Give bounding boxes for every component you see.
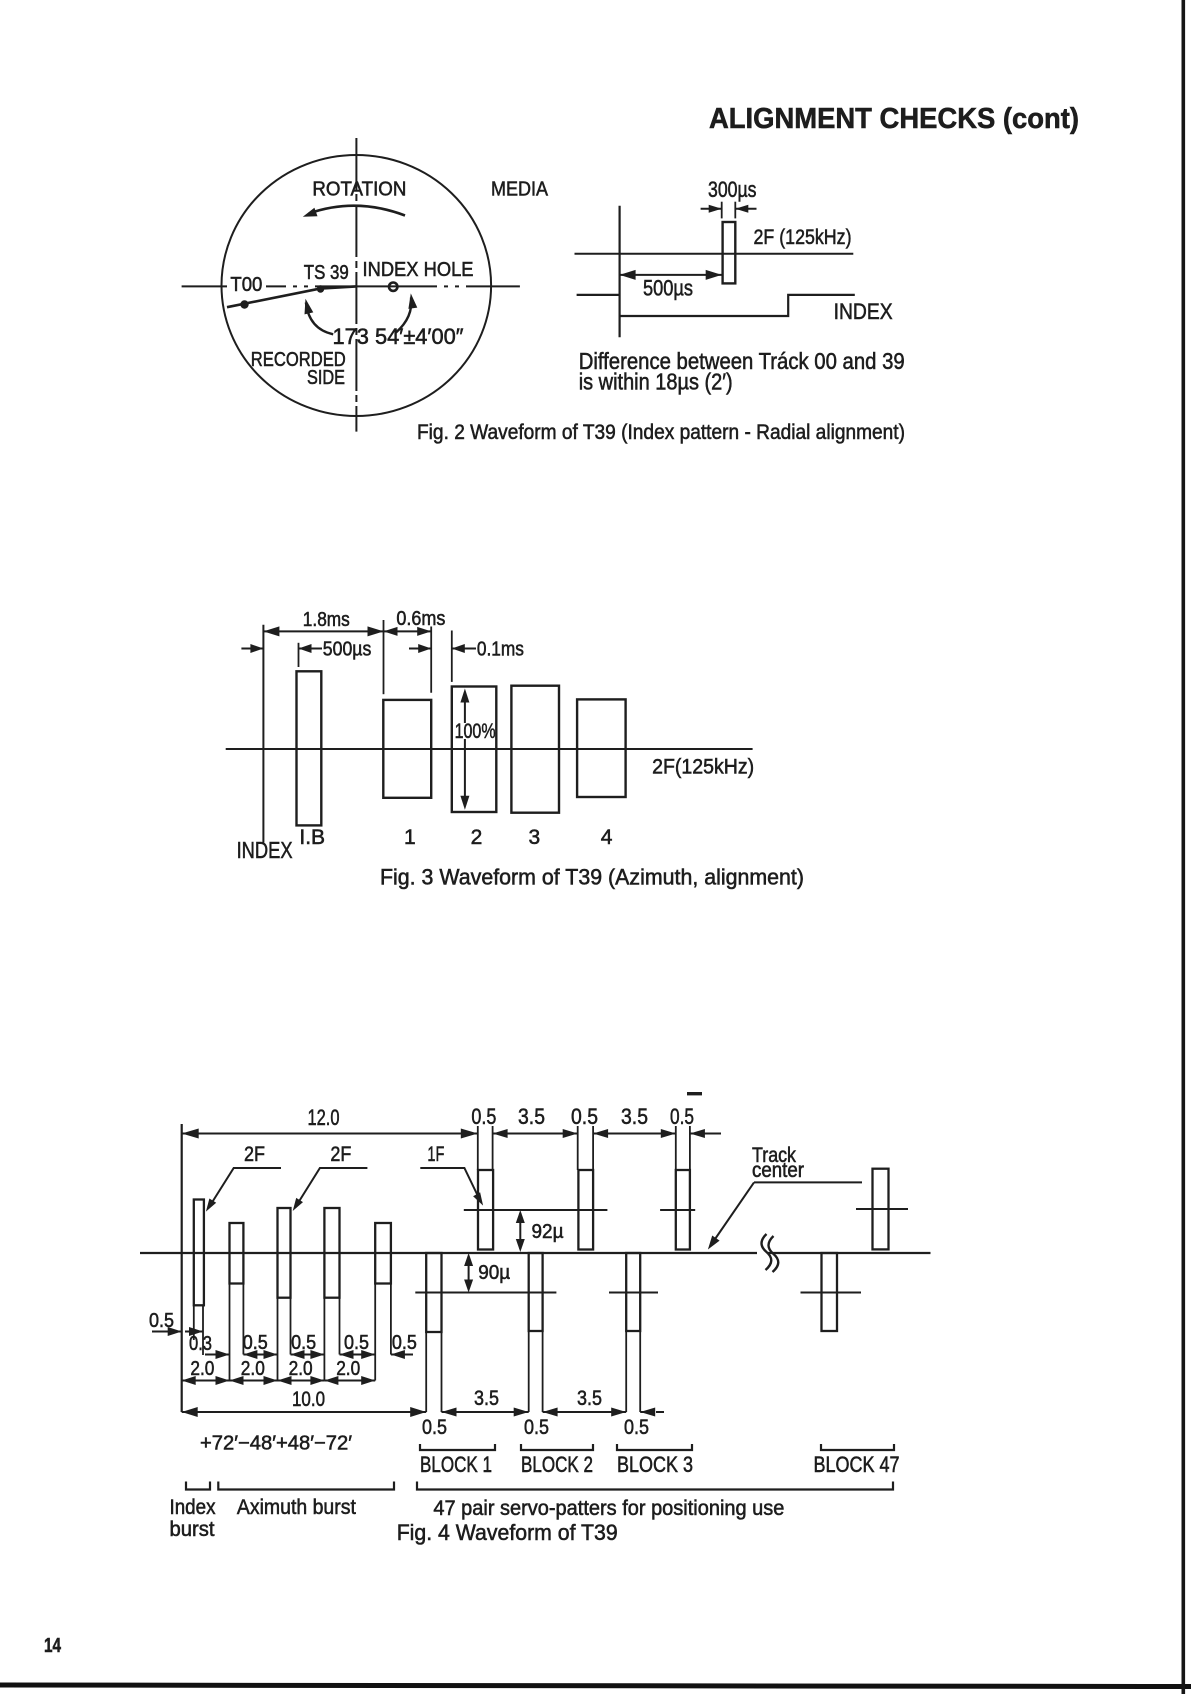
- Fig.4 track center baseline: [140, 1252, 757, 1254]
- svg-text:92µ: 92µ: [532, 1221, 564, 1243]
- Fig.3 pulse I.B: [297, 671, 322, 825]
- Fig.4 lower chain line block3: [609, 1292, 658, 1294]
- svg-text:2.0: 2.0: [289, 1358, 313, 1380]
- Fig.4 servo upper pulse block2: [578, 1170, 593, 1250]
- Fig.2 timing 2F baseline: [575, 253, 854, 255]
- svg-text:3.5: 3.5: [621, 1104, 648, 1129]
- svg-text:INDEX: INDEX: [237, 837, 293, 863]
- svg-text:BLOCK 3: BLOCK 3: [617, 1452, 693, 1477]
- svg-text:1.8ms: 1.8ms: [303, 609, 350, 631]
- svg-text:3.5: 3.5: [474, 1387, 499, 1410]
- svg-text:2.0: 2.0: [190, 1358, 214, 1380]
- Fig.4 upper chain line block47: [856, 1208, 908, 1210]
- Fig.2 track-39 slant line: [227, 286, 356, 307]
- svg-text:burst: burst: [170, 1518, 215, 1541]
- svg-text:0.5: 0.5: [524, 1416, 549, 1439]
- svg-text:Fig. 2 Waveform of T39 (Index: Fig. 2 Waveform of T39 (Index pattern - …: [417, 420, 905, 444]
- Fig.4 break squiggle: [762, 1234, 772, 1270]
- Fig.2 horizontal centerline: [182, 285, 227, 287]
- svg-text:2F: 2F: [330, 1143, 351, 1166]
- svg-text:2F: 2F: [244, 1143, 265, 1166]
- Fig.4 upper chain line block3: [660, 1209, 695, 1211]
- svg-text:INDEX HOLE: INDEX HOLE: [363, 259, 474, 281]
- svg-text:100%: 100%: [455, 720, 496, 743]
- svg-text:0.5: 0.5: [291, 1332, 316, 1354]
- Fig.4 azimuth pulse 1 (index burst): [194, 1200, 204, 1306]
- svg-text:0.5: 0.5: [670, 1104, 694, 1129]
- svg-text:2F (125kHz): 2F (125kHz): [754, 226, 852, 249]
- Fig.4 overbar mark: [687, 1092, 702, 1095]
- svg-text:90µ: 90µ: [478, 1262, 510, 1284]
- Fig.4 92u dimension: [519, 1213, 521, 1249]
- Fig.4 servo upper pulse block1: [478, 1170, 493, 1250]
- svg-text:BLOCK 47: BLOCK 47: [814, 1452, 900, 1477]
- Fig.4 upper extension lines: [477, 1126, 479, 1170]
- svg-text:0.6ms: 0.6ms: [396, 608, 445, 630]
- Fig.2 timing 300us arrows: [701, 208, 722, 210]
- Fig.3 100% arrow: [464, 692, 466, 806]
- svg-text:0.5: 0.5: [243, 1332, 268, 1354]
- svg-text:2F(125kHz): 2F(125kHz): [652, 756, 754, 779]
- Fig.4 2.0 dimension row: [182, 1380, 230, 1382]
- svg-text:0.5: 0.5: [471, 1104, 496, 1129]
- svg-text:INDEX: INDEX: [834, 299, 893, 324]
- svg-text:1: 1: [404, 826, 416, 849]
- Fig.4 BLOCK brackets: [420, 1444, 495, 1450]
- Fig.2 timing 300us extension lines: [721, 202, 723, 219]
- svg-text:Fig. 3 Waveform of T39 (Azimu: Fig. 3 Waveform of T39 (Azimuth, alignme…: [380, 865, 804, 890]
- Fig.4 upper chain line block1-2: [464, 1209, 608, 1211]
- Fig.4 azimuth pulse 2: [230, 1223, 244, 1284]
- Fig.3 0.6ms dimension: [384, 630, 432, 632]
- Fig.3 500us dimension: [241, 648, 263, 650]
- svg-text:500µs: 500µs: [323, 639, 372, 661]
- svg-text:ALIGNMENT CHECKS (cont): ALIGNMENT CHECKS (cont): [709, 103, 1079, 135]
- Fig.3 extension lines rect1: [383, 620, 385, 694]
- svg-text:0.5: 0.5: [392, 1332, 417, 1354]
- svg-text:Aximuth burst: Aximuth burst: [237, 1496, 356, 1519]
- svg-text:T00: T00: [230, 274, 262, 296]
- svg-text:0.5: 0.5: [571, 1104, 598, 1129]
- Fig.3 pulse 3: [511, 686, 559, 813]
- Fig.4 pulse1 extension lines: [193, 1305, 195, 1340]
- Fig.4 10.0 dimension: [182, 1411, 427, 1413]
- svg-text:10.0: 10.0: [292, 1388, 325, 1411]
- Fig.4 3.5 lower dimensions: [442, 1411, 529, 1413]
- Fig.3 pulse 4: [577, 699, 626, 797]
- Fig.2 rotation arrow arc: [309, 206, 405, 216]
- svg-text:center: center: [752, 1159, 804, 1182]
- Fig.4 90u dimension: [468, 1256, 470, 1289]
- Fig.4 servo lower pulse block47: [822, 1253, 838, 1331]
- svg-text:3.5: 3.5: [577, 1387, 602, 1410]
- svg-text:MEDIA: MEDIA: [491, 179, 549, 201]
- Fig.3 baseline 2F: [226, 748, 753, 750]
- Fig.3 100% label: [455, 723, 495, 739]
- svg-text:0.5: 0.5: [624, 1416, 649, 1439]
- Fig.4 servo lower pulse block2: [529, 1253, 543, 1331]
- Fig.2 disk media circle: [221, 155, 491, 416]
- svg-text:Fig. 4 Waveform of T39: Fig. 4 Waveform of T39: [397, 1520, 618, 1545]
- Fig.3 1.8ms dimension: [263, 630, 383, 632]
- Fig.4 azimuth pulse 4: [324, 1208, 339, 1298]
- Fig.4 azimuth pulse 3: [278, 1208, 291, 1298]
- Fig.3 0.1ms dimension: [409, 648, 431, 650]
- Fig.2 angle arc right with arrow: [396, 298, 411, 333]
- Fig.4 bottom brackets: [186, 1482, 210, 1490]
- Fig.4 servo upper pulse block3: [676, 1170, 690, 1250]
- svg-text:SIDE: SIDE: [307, 367, 345, 389]
- Fig.4 lower chain line block1-2: [415, 1292, 556, 1294]
- Fig.2 timing 500us dimension: [620, 274, 722, 276]
- Fig.3 pulse 1: [383, 700, 431, 798]
- svg-text:47 pair servo-patters for posi: 47 pair servo-patters for positioning us…: [433, 1497, 784, 1520]
- Fig.3 INDEX vertical line: [262, 625, 264, 843]
- Fig.4 azimuth pulse 5: [375, 1223, 391, 1284]
- svg-text:173 54′±4′00″: 173 54′±4′00″: [333, 324, 464, 349]
- svg-text:BLOCK 1: BLOCK 1: [420, 1452, 492, 1477]
- Fig.4 servo lower pulse block1: [426, 1253, 441, 1332]
- bottom scan bar: [0, 1683, 1191, 1690]
- svg-text:ROTATION: ROTATION: [312, 179, 406, 201]
- svg-text:3: 3: [529, 826, 541, 849]
- Fig.3 pulse 2: [452, 687, 497, 813]
- svg-text:0.3: 0.3: [189, 1333, 212, 1355]
- svg-text:+72′−48′+48′−72′: +72′−48′+48′−72′: [200, 1433, 352, 1455]
- Fig.4 servo lower extension lines: [425, 1332, 427, 1412]
- svg-text:3.5: 3.5: [518, 1104, 545, 1129]
- Fig.2 timing 2F pulse: [723, 222, 736, 283]
- Fig.4 0.5 width dimension row: [229, 1284, 231, 1381]
- Fig.2 angle arc left with arrow: [306, 303, 333, 335]
- svg-text:12.0: 12.0: [308, 1105, 340, 1130]
- Fig.4 main left vertical line: [181, 1124, 183, 1412]
- Fig.4 servo upper pulse block47: [873, 1169, 889, 1250]
- svg-text:0.5: 0.5: [344, 1332, 369, 1354]
- Fig.4 lower chain line block47: [801, 1292, 862, 1294]
- svg-text:300µs: 300µs: [708, 177, 757, 202]
- svg-text:BLOCK 2: BLOCK 2: [521, 1452, 593, 1477]
- svg-text:Index: Index: [170, 1496, 216, 1519]
- svg-text:2.0: 2.0: [241, 1358, 265, 1380]
- svg-text:TS 39: TS 39: [304, 262, 349, 284]
- svg-text:I.B: I.B: [299, 826, 325, 849]
- Fig.2 timing index vertical line: [618, 206, 620, 338]
- svg-text:0.5: 0.5: [422, 1416, 447, 1439]
- right scan bar: [1182, 0, 1186, 1694]
- Fig.4 servo lower pulse block3: [626, 1253, 640, 1331]
- svg-text:1F: 1F: [427, 1143, 444, 1166]
- svg-text:0.1ms: 0.1ms: [477, 639, 524, 661]
- svg-text:500µs: 500µs: [643, 276, 693, 301]
- svg-text:2: 2: [471, 826, 483, 849]
- Fig.2 vertical centerline: [355, 138, 357, 432]
- Fig.2 index hole circle: [389, 283, 397, 291]
- svg-text:2.0: 2.0: [336, 1358, 360, 1380]
- svg-text:is within 18µs (2′): is within 18µs (2′): [579, 369, 733, 395]
- Fig.4 12.0 dimension: [182, 1133, 478, 1135]
- Fig.2 timing INDEX waveform: [577, 294, 620, 296]
- svg-text:14: 14: [44, 1635, 62, 1657]
- svg-text:4: 4: [601, 826, 613, 849]
